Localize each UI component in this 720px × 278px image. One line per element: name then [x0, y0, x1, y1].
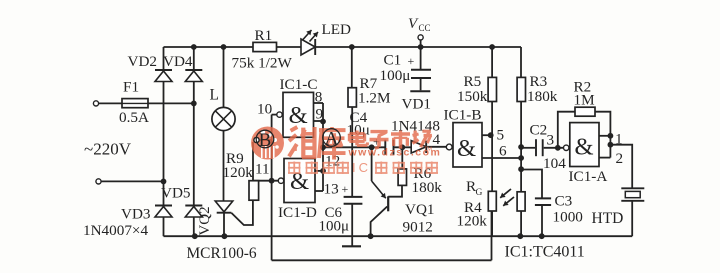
svg-text:IC1-C: IC1-C	[280, 76, 318, 93]
svg-text:0.5A: 0.5A	[119, 109, 149, 126]
svg-text:4: 4	[433, 131, 441, 148]
svg-text:2: 2	[616, 150, 624, 167]
svg-text:&: &	[574, 134, 593, 161]
svg-text:HTD: HTD	[592, 210, 624, 227]
svg-text:C2: C2	[530, 122, 548, 139]
svg-text:150k: 150k	[457, 88, 488, 105]
svg-text:VD5: VD5	[161, 185, 191, 202]
svg-text:+: +	[342, 182, 349, 196]
svg-text:A: A	[325, 129, 339, 150]
svg-text:+: +	[408, 54, 415, 68]
svg-text:VD4: VD4	[163, 53, 193, 70]
svg-text:~220V: ~220V	[84, 140, 132, 159]
svg-text:9012: 9012	[403, 219, 433, 236]
svg-text:VQ2: VQ2	[197, 206, 213, 235]
svg-text:VD3: VD3	[121, 206, 151, 223]
svg-text:100μ: 100μ	[380, 67, 411, 84]
svg-text:G: G	[476, 188, 483, 198]
svg-text:1M: 1M	[574, 92, 596, 109]
svg-text:VQ1: VQ1	[405, 201, 435, 218]
svg-text:13: 13	[324, 181, 339, 198]
svg-text:1: 1	[615, 131, 623, 148]
svg-text:1.2M: 1.2M	[358, 90, 391, 107]
svg-text:F1: F1	[123, 79, 139, 96]
svg-text:3: 3	[547, 132, 555, 149]
svg-text:104: 104	[543, 155, 566, 172]
svg-text:100μ: 100μ	[319, 219, 350, 235]
svg-text:1N4007×4: 1N4007×4	[83, 222, 149, 239]
svg-text:120k: 120k	[223, 164, 254, 181]
svg-text:IC: IC	[352, 160, 371, 175]
svg-text:75k 1/2W: 75k 1/2W	[232, 55, 293, 72]
svg-text:B: B	[259, 130, 272, 151]
svg-text:IC1-A: IC1-A	[569, 168, 608, 185]
svg-text:TM: TM	[424, 147, 432, 153]
svg-text:IC1-D: IC1-D	[278, 204, 317, 221]
svg-text:IC1:TC4011: IC1:TC4011	[505, 244, 585, 261]
svg-text:C3: C3	[555, 193, 573, 210]
svg-text:11: 11	[255, 161, 270, 178]
svg-text:R1: R1	[255, 27, 273, 44]
svg-text:LED: LED	[322, 21, 352, 38]
svg-text:5: 5	[497, 127, 505, 144]
svg-text:C1: C1	[384, 52, 402, 69]
svg-text:180k: 180k	[412, 179, 443, 196]
svg-text:L: L	[210, 87, 219, 104]
svg-text:120k: 120k	[457, 213, 488, 230]
svg-text:VD2: VD2	[128, 53, 158, 70]
svg-text:MCR100-6: MCR100-6	[187, 245, 257, 262]
svg-text:VD1: VD1	[402, 96, 432, 113]
svg-text:IC1-B: IC1-B	[444, 107, 482, 124]
svg-text:10: 10	[257, 101, 273, 118]
svg-text:180k: 180k	[527, 88, 558, 105]
svg-text:&: &	[289, 102, 308, 129]
svg-text:CC: CC	[419, 23, 431, 33]
svg-text:1000: 1000	[553, 209, 584, 226]
svg-text:&: &	[457, 135, 476, 162]
svg-text:6: 6	[499, 143, 507, 160]
svg-text:9: 9	[316, 106, 324, 123]
